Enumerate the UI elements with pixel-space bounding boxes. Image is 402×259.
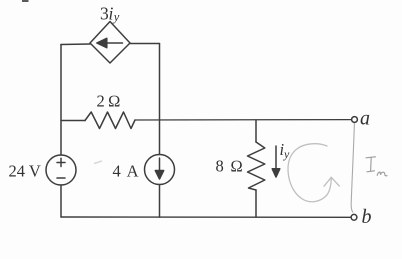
label 3iy [100,4,120,25]
wire: top-left horizontal from left vertical to diamond [61,43,90,46]
wire: top-right horizontal from diamond to right vertical [130,43,160,45]
terminal a (open circle) [352,117,358,123]
pencil annotation: short-circuit line from a to b [351,123,354,213]
wire: middle vertical (node to 4A source) [159,120,161,155]
svg-text:8 Ω: 8 Ω [216,157,245,176]
svg-text:y: y [283,147,290,161]
wire: middle vertical (top loop down to node at 2-ohm rail) [159,44,161,121]
scan artifact: top edge mark [22,0,29,2]
wire: left vertical (24V source to bottom rail) [60,185,62,217]
wire: bottom rail [61,216,351,218]
svg-text:a: a [360,108,370,130]
svg-text:2 Ω: 2 Ω [97,92,121,111]
terminal b (open circle) [351,214,357,220]
svg-text:i: i [109,4,114,24]
svg-text:b: b [362,206,372,228]
label iy [280,140,291,161]
svg-text:4 A: 4 A [113,162,140,181]
resistor R 2ohm (horizontal zigzag) [61,112,351,129]
resistor R 8ohm (vertical zigzag) [248,120,265,217]
scan artifact: faint smudge [94,161,102,164]
current arrow iy (beside 8 ohm) [272,146,280,177]
svg-text:y: y [112,10,120,24]
voltage source V1 24V (circle with plus minus) [46,155,76,185]
dependent current source 3iy (diamond with left arrow) [90,22,130,64]
wire: left vertical (top loop down to 24V source) [60,45,62,156]
wire: middle vertical (4A source to bottom rail) [159,185,161,218]
pencil annotation: circular arrow IN (counterclockwise) [288,144,339,202]
svg-text:24 V: 24 V [9,162,41,181]
pencil annotation: label IN (handwritten) [366,157,387,176]
current source I1 4A (circle with down arrow) [145,155,175,185]
